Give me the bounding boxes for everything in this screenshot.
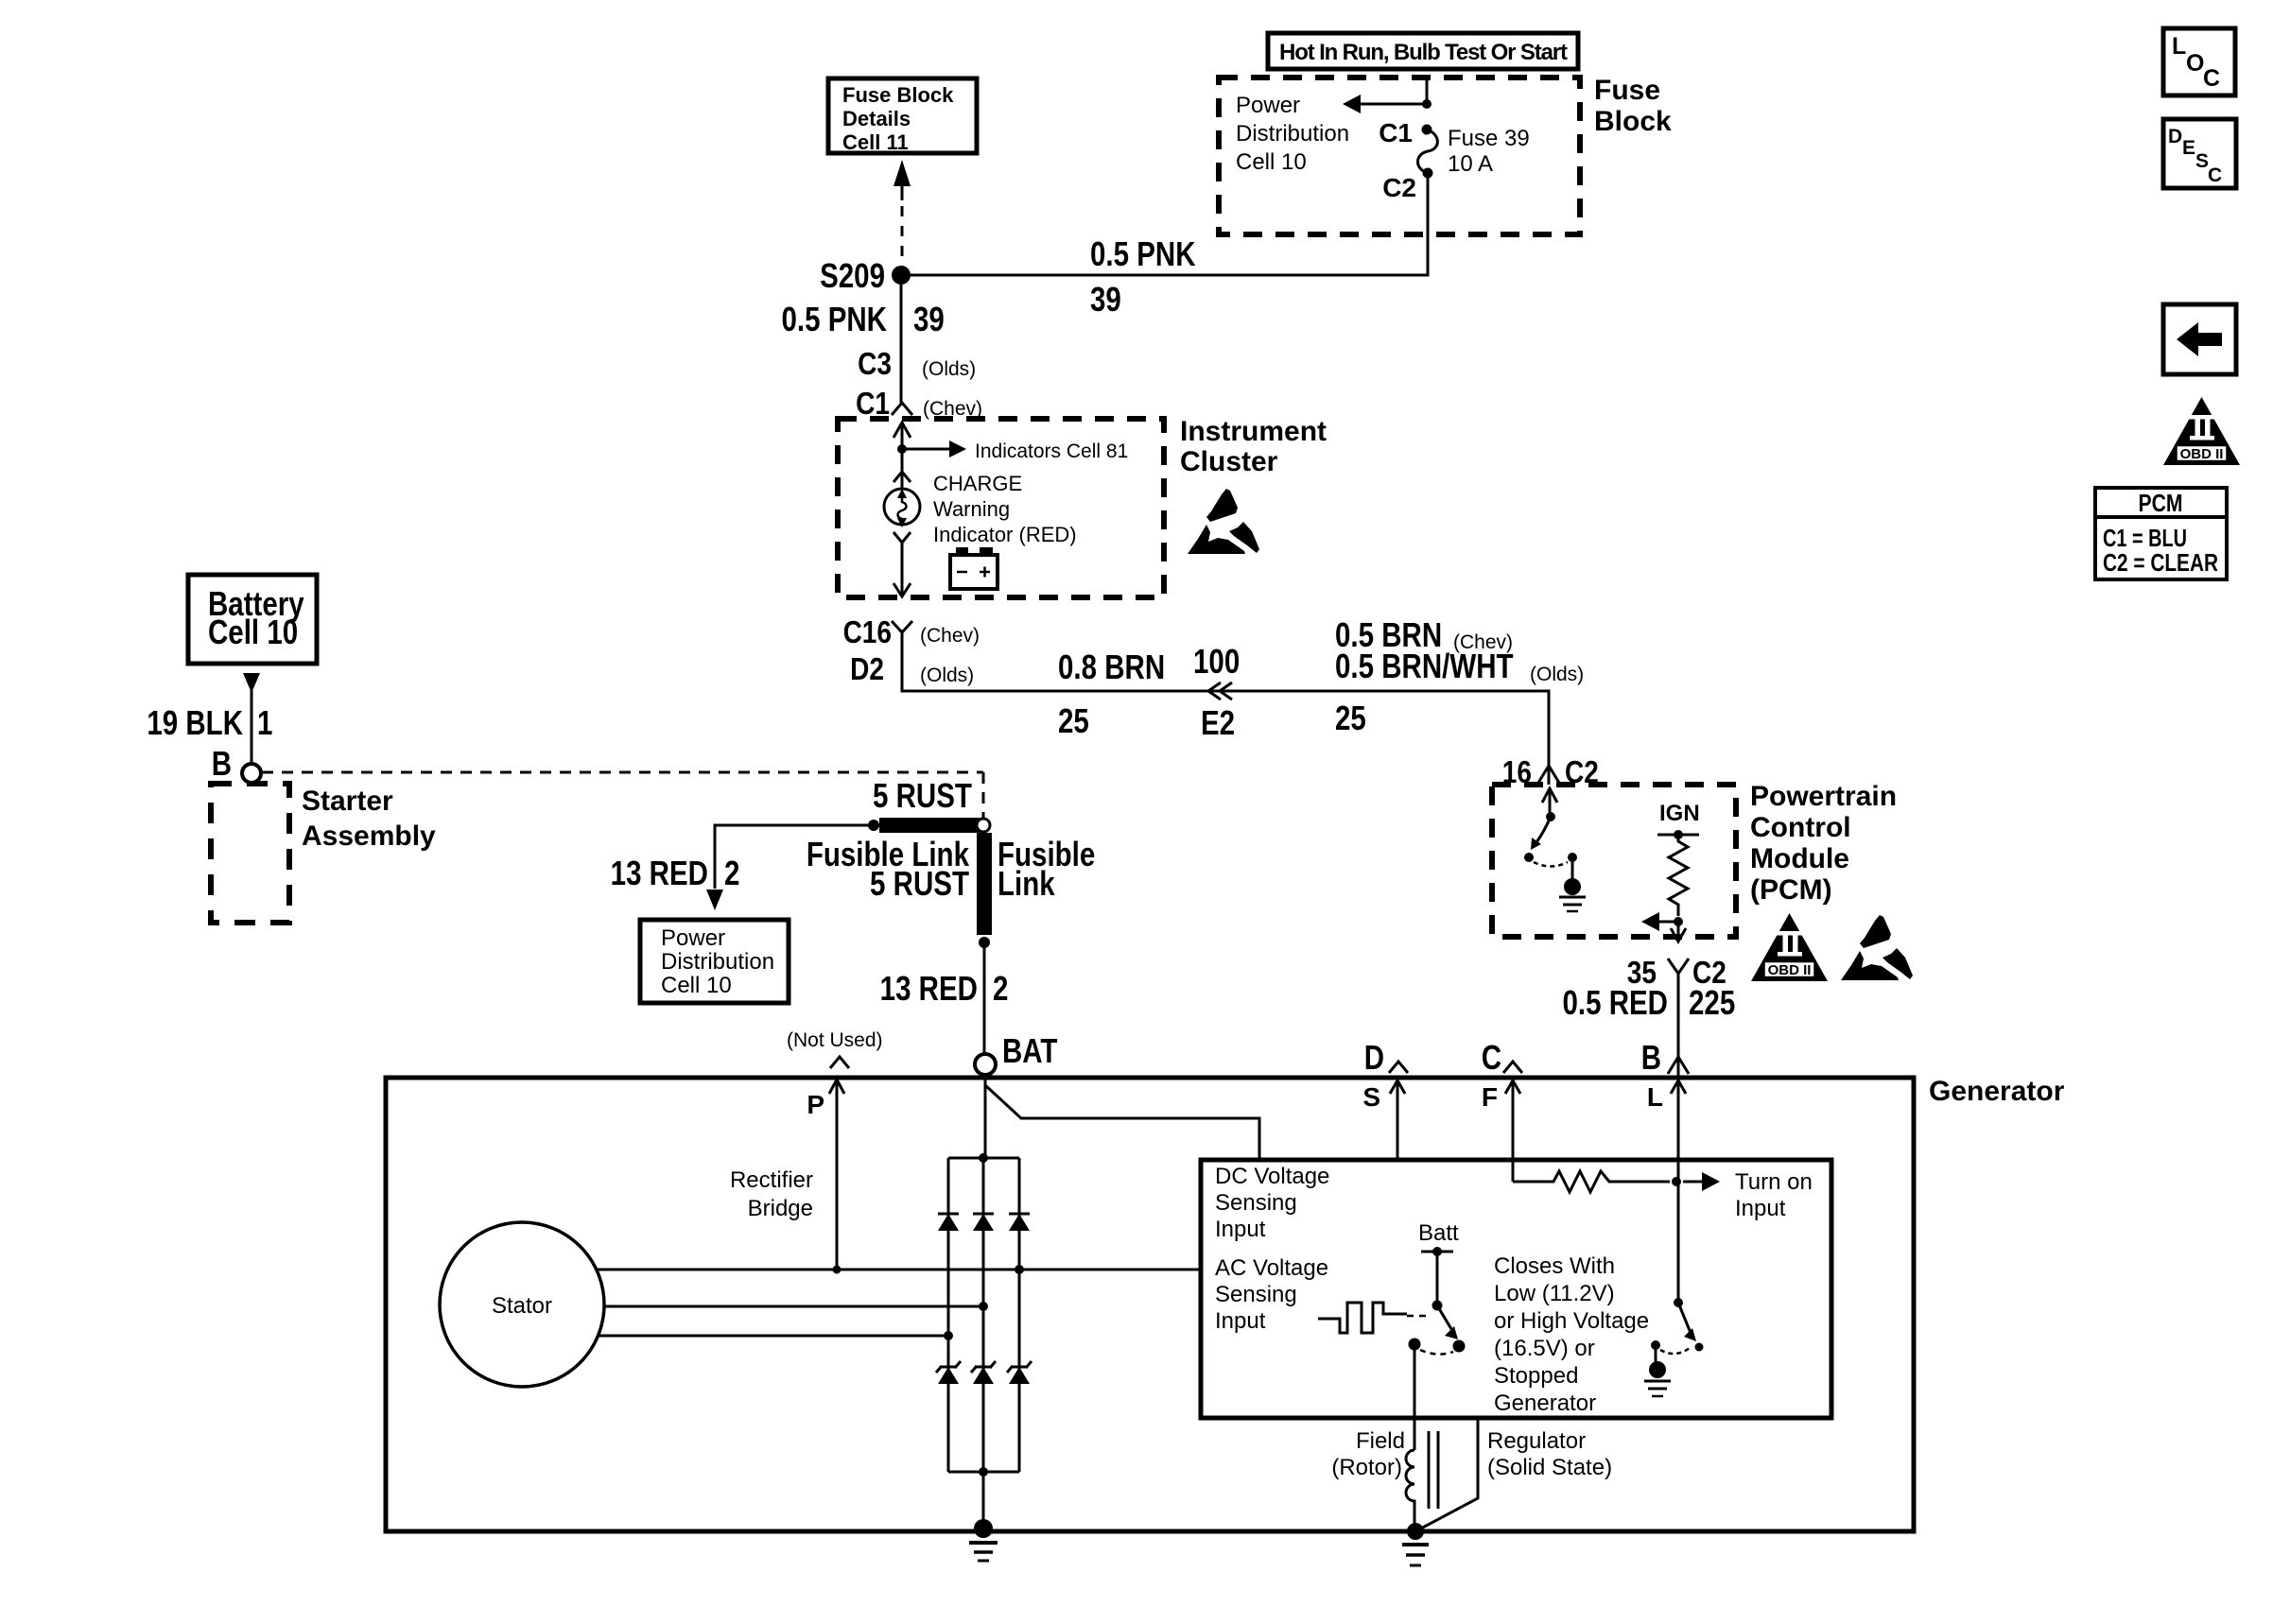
svg-text:DC Voltage: DC Voltage bbox=[1215, 1164, 1329, 1189]
svg-text:Details: Details bbox=[842, 107, 911, 130]
svg-text:Cell 11: Cell 11 bbox=[842, 130, 909, 154]
svg-text:5 RUST: 5 RUST bbox=[873, 776, 972, 814]
svg-text:B: B bbox=[212, 744, 232, 782]
svg-text:or High Voltage: or High Voltage bbox=[1494, 1308, 1649, 1334]
svg-text:Power: Power bbox=[661, 925, 725, 951]
svg-text:Module: Module bbox=[1750, 843, 1849, 874]
svg-text:Input: Input bbox=[1215, 1217, 1266, 1242]
rectifier ground bbox=[974, 1519, 993, 1538]
svg-text:Stator: Stator bbox=[492, 1293, 552, 1319]
dashed lead to fusible link bbox=[262, 771, 983, 774]
svg-text:P: P bbox=[807, 1090, 824, 1119]
pcm down arrow out bbox=[1677, 922, 1680, 938]
fusible link junction dot bbox=[868, 820, 879, 831]
svg-text:Cell 10: Cell 10 bbox=[1236, 149, 1307, 175]
svg-text:C3: C3 bbox=[858, 347, 892, 382]
P terminal arrow bbox=[829, 1080, 844, 1094]
junction dot bbox=[897, 444, 907, 454]
svg-text:225: 225 bbox=[1689, 983, 1735, 1021]
open circle corner bbox=[977, 819, 990, 832]
svg-text:CHARGE: CHARGE bbox=[933, 472, 1022, 495]
svg-text:100: 100 bbox=[1193, 642, 1240, 680]
ring terminal B bbox=[242, 764, 261, 783]
svg-text:Closes With: Closes With bbox=[1494, 1253, 1615, 1279]
svg-text:Starter: Starter bbox=[302, 786, 393, 817]
DC sense tap bbox=[985, 1085, 1259, 1160]
svg-text:E: E bbox=[2182, 137, 2195, 159]
svg-text:0.8 BRN: 0.8 BRN bbox=[1058, 648, 1165, 685]
svg-text:Fuse Block: Fuse Block bbox=[842, 83, 954, 107]
splice S209 dot bbox=[892, 266, 911, 285]
svg-text:O: O bbox=[2186, 50, 2204, 77]
indicators branch arrow bbox=[902, 448, 950, 451]
svg-text:F: F bbox=[1482, 1082, 1498, 1112]
cluster feed wire and up arrow bbox=[901, 423, 904, 489]
hot in run header box bbox=[1268, 33, 1578, 69]
svg-text:S209: S209 bbox=[820, 256, 885, 294]
rectifier top bar bbox=[948, 1157, 1019, 1160]
wire C16 down right to PCM bbox=[902, 641, 1549, 785]
wire C2 down bbox=[1427, 173, 1430, 234]
battery telltale icon bbox=[950, 555, 998, 589]
svg-text:Fuse 39: Fuse 39 bbox=[1448, 126, 1530, 151]
svg-text:Distribution: Distribution bbox=[661, 949, 774, 975]
svg-text:2: 2 bbox=[993, 969, 1008, 1007]
svg-text:Indicators Cell 81: Indicators Cell 81 bbox=[975, 441, 1128, 462]
regulator box bbox=[1201, 1160, 1831, 1418]
svg-text:Generator: Generator bbox=[1494, 1391, 1596, 1416]
svg-text:Sensing: Sensing bbox=[1215, 1282, 1297, 1307]
svg-text:BAT: BAT bbox=[1002, 1031, 1057, 1069]
svg-text:S: S bbox=[2195, 150, 2209, 172]
svg-text:AC Voltage: AC Voltage bbox=[1215, 1255, 1328, 1281]
starter assembly dashed box bbox=[211, 784, 289, 923]
svg-text:13 RED: 13 RED bbox=[611, 854, 708, 891]
svg-text:Rectifier: Rectifier bbox=[730, 1167, 813, 1193]
zener Z2 bbox=[971, 1361, 996, 1384]
switch ground ball bbox=[1655, 1349, 1657, 1362]
pcm input switch bbox=[1549, 791, 1552, 817]
svg-text:Bridge: Bridge bbox=[748, 1196, 813, 1221]
rectifier rails bbox=[947, 1158, 950, 1472]
BAT ring terminal bbox=[975, 1054, 996, 1075]
wire down and arrow bbox=[901, 543, 904, 596]
field ground bbox=[1407, 1523, 1424, 1540]
wire link to BAT bbox=[983, 942, 986, 1055]
svg-text:5 RUST: 5 RUST bbox=[870, 864, 969, 902]
svg-text:Cell 10: Cell 10 bbox=[208, 613, 298, 650]
back arrow icon box bbox=[2163, 304, 2236, 374]
svg-text:L: L bbox=[2172, 33, 2186, 60]
wire S209 to fuse block bbox=[901, 227, 1428, 275]
regulator ground link bbox=[1417, 1418, 1478, 1530]
battery box bbox=[188, 575, 317, 664]
zener Z1 bbox=[936, 1361, 961, 1384]
pcm dashed box bbox=[1492, 785, 1736, 937]
svg-text:19 BLK: 19 BLK bbox=[147, 703, 243, 741]
svg-text:Warning: Warning bbox=[933, 497, 1010, 521]
connector chevron C1 bbox=[892, 403, 912, 415]
chevron above lamp bbox=[894, 472, 911, 482]
svg-text:Cluster: Cluster bbox=[1180, 446, 1278, 477]
svg-text:Control: Control bbox=[1750, 812, 1851, 843]
wire 35 to generator L bbox=[1677, 981, 1680, 1078]
svg-text:Input: Input bbox=[1735, 1196, 1786, 1221]
svg-text:C16: C16 bbox=[843, 615, 892, 650]
svg-text:1: 1 bbox=[257, 703, 272, 741]
svg-text:C2: C2 bbox=[1382, 173, 1416, 202]
power distribution box bbox=[640, 920, 789, 1003]
field wire bbox=[1414, 1349, 1416, 1450]
stator bbox=[440, 1222, 604, 1387]
fuse block dashed box bbox=[1219, 78, 1580, 234]
diode D1 bbox=[938, 1214, 959, 1231]
svg-text:Powertrain: Powertrain bbox=[1750, 781, 1897, 812]
esd symbol cluster bbox=[1188, 489, 1259, 554]
svg-text:0.5 BRN/WHT: 0.5 BRN/WHT bbox=[1335, 647, 1514, 684]
stator wire 1 bbox=[597, 1269, 1201, 1271]
svg-text:Hot In Run, Bulb Test Or Start: Hot In Run, Bulb Test Or Start bbox=[1279, 40, 1568, 65]
arrow from battery bbox=[243, 673, 260, 693]
svg-text:(Olds): (Olds) bbox=[1530, 664, 1584, 685]
esd symbol at pcm bbox=[1841, 915, 1913, 980]
desc icon box bbox=[2163, 119, 2236, 188]
svg-text:Generator: Generator bbox=[1929, 1076, 2065, 1107]
svg-text:Distribution: Distribution bbox=[1236, 121, 1349, 147]
svg-text:Field: Field bbox=[1356, 1428, 1405, 1454]
svg-text:B: B bbox=[1641, 1038, 1661, 1076]
svg-text:39: 39 bbox=[1090, 280, 1121, 318]
field coil bbox=[1406, 1450, 1414, 1524]
svg-text:C: C bbox=[1482, 1038, 1501, 1076]
chevron below lamp bbox=[894, 532, 911, 543]
wire S209 down bbox=[900, 275, 903, 403]
svg-text:(Solid State): (Solid State) bbox=[1487, 1455, 1612, 1480]
loc icon box bbox=[2163, 28, 2235, 95]
pulse train symbol bbox=[1318, 1303, 1407, 1333]
svg-text:S: S bbox=[1362, 1082, 1380, 1112]
svg-text:(PCM): (PCM) bbox=[1750, 874, 1832, 906]
svg-text:D: D bbox=[2168, 126, 2182, 147]
svg-text:13 RED: 13 RED bbox=[880, 969, 978, 1007]
fuse 39 feed wire and arrow bbox=[1358, 80, 1427, 104]
svg-text:Turn on: Turn on bbox=[1735, 1169, 1813, 1195]
junction dot P stator bbox=[833, 1266, 842, 1274]
pcm switch ground bbox=[1564, 878, 1581, 895]
zener Z3 bbox=[1007, 1361, 1032, 1384]
instrument cluster dashed box bbox=[838, 419, 1164, 597]
stator wire 2 bbox=[604, 1305, 983, 1308]
svg-text:0.5 PNK: 0.5 PNK bbox=[781, 300, 887, 337]
svg-text:2: 2 bbox=[724, 854, 739, 891]
svg-text:IGN: IGN bbox=[1659, 801, 1700, 826]
svg-text:Fuse: Fuse bbox=[1594, 75, 1660, 106]
svg-text:Stopped: Stopped bbox=[1494, 1363, 1578, 1389]
dot below vertical link bbox=[979, 937, 990, 948]
connector 16 C2 bbox=[1538, 766, 1559, 783]
charge warning lamp bbox=[884, 489, 920, 525]
fuse block details box bbox=[828, 78, 977, 153]
svg-text:E2: E2 bbox=[1201, 703, 1235, 741]
regulator left switch bbox=[1432, 1301, 1443, 1311]
svg-text:D2: D2 bbox=[850, 652, 884, 687]
svg-text:C: C bbox=[2203, 65, 2220, 92]
svg-text:L: L bbox=[1647, 1082, 1663, 1112]
IGN pullup resistor bbox=[1657, 834, 1699, 837]
svg-text:Regulator: Regulator bbox=[1487, 1428, 1586, 1454]
svg-text:(16.5V) or: (16.5V) or bbox=[1494, 1336, 1595, 1361]
splice E2 chevrons bbox=[1208, 682, 1232, 700]
svg-text:Input: Input bbox=[1215, 1308, 1266, 1334]
svg-text:25: 25 bbox=[1335, 699, 1366, 736]
svg-text:Link: Link bbox=[998, 864, 1055, 902]
dashed arrow to fuse block details bbox=[894, 160, 911, 186]
field core bars bbox=[1428, 1431, 1431, 1509]
rectifier bottom bar bbox=[948, 1471, 1019, 1474]
chevron P cavity bbox=[830, 1057, 849, 1068]
svg-text:C1: C1 bbox=[1379, 118, 1413, 147]
diode D3 bbox=[1009, 1214, 1030, 1231]
BAT wire into generator bbox=[984, 1075, 987, 1158]
svg-text:C: C bbox=[2208, 164, 2222, 186]
svg-text:PCM: PCM bbox=[2139, 489, 2183, 517]
svg-text:10 A: 10 A bbox=[1448, 151, 1493, 177]
svg-text:Indicator (RED): Indicator (RED) bbox=[933, 523, 1077, 546]
stator wire 3 bbox=[599, 1335, 948, 1338]
svg-text:(Rotor): (Rotor) bbox=[1331, 1455, 1402, 1480]
turn on resistor bbox=[1513, 1171, 1670, 1192]
svg-text:Instrument: Instrument bbox=[1180, 416, 1327, 447]
fuse F39 element bbox=[1422, 125, 1432, 135]
svg-text:C2 = CLEAR: C2 = CLEAR bbox=[2103, 548, 2218, 577]
svg-text:Cell 10: Cell 10 bbox=[661, 973, 732, 998]
rectifier ground lead bbox=[982, 1472, 985, 1526]
connector 35 C2 bbox=[1668, 959, 1689, 981]
svg-text:D: D bbox=[1364, 1038, 1384, 1076]
pcm connector color table bbox=[2095, 488, 2227, 579]
svg-text:0.5 PNK: 0.5 PNK bbox=[1090, 234, 1196, 272]
svg-text:(Not Used): (Not Used) bbox=[787, 1029, 883, 1051]
svg-text:Low (11.2V): Low (11.2V) bbox=[1494, 1281, 1615, 1306]
fusible link horizontal bar bbox=[879, 818, 980, 833]
svg-text:Assembly: Assembly bbox=[302, 821, 436, 852]
svg-text:39: 39 bbox=[913, 300, 945, 337]
svg-text:(Olds): (Olds) bbox=[922, 358, 976, 380]
diode D2 bbox=[973, 1214, 994, 1231]
svg-text:(Chev): (Chev) bbox=[920, 625, 980, 647]
regulator right switch bbox=[1677, 1182, 1680, 1300]
svg-text:Block: Block bbox=[1594, 106, 1672, 137]
generator box bbox=[386, 1078, 1914, 1531]
svg-text:Sensing: Sensing bbox=[1215, 1190, 1297, 1216]
fusible link vertical bar bbox=[977, 833, 992, 935]
svg-text:0.5 RED: 0.5 RED bbox=[1562, 983, 1668, 1021]
svg-text:(Olds): (Olds) bbox=[920, 665, 974, 686]
wire link to power distribution bbox=[715, 825, 874, 889]
connector C16 Y bbox=[892, 621, 912, 641]
obd ii triangle at pcm bbox=[1751, 913, 1828, 981]
obd ii triangle icon bbox=[2163, 397, 2240, 465]
svg-text:25: 25 bbox=[1058, 701, 1089, 739]
svg-text:Power: Power bbox=[1236, 93, 1300, 118]
svg-text:Batt: Batt bbox=[1418, 1220, 1459, 1246]
stator wire dots on rails bbox=[1015, 1265, 1024, 1274]
pcm internal left arrow bbox=[1658, 921, 1678, 924]
